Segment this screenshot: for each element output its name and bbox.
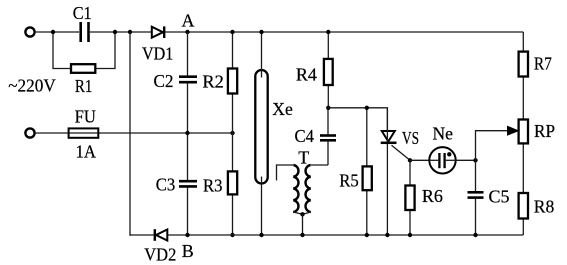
svg-text:R1: R1 xyxy=(75,76,93,96)
resistor R2 xyxy=(202,69,237,94)
wire top rail VD1 to right end xyxy=(165,31,523,33)
capacitor C3 xyxy=(156,175,197,195)
svg-text:R8: R8 xyxy=(534,197,555,217)
node dot T bottom rail xyxy=(300,233,304,237)
svg-text:VS: VS xyxy=(402,128,419,148)
wire junction row R4/R5/VS xyxy=(328,108,387,131)
wire Ne to C5 junction xyxy=(456,159,476,161)
node dot middle rail at R2-R3 column xyxy=(230,131,234,135)
node B xyxy=(182,233,194,261)
node dot T common xyxy=(300,212,304,216)
svg-text:C4: C4 xyxy=(295,126,315,146)
svg-text:T: T xyxy=(298,147,309,167)
svg-text:C2: C2 xyxy=(154,71,174,91)
node dot VS cathode bottom xyxy=(385,233,389,237)
wire VD2 branch (left vertical) xyxy=(129,32,131,236)
node dot C5 bottom xyxy=(473,233,477,237)
svg-text:R5: R5 xyxy=(339,171,359,191)
node dot R3 bottom xyxy=(230,233,234,237)
resistor R3 xyxy=(203,171,237,195)
resistor R4 xyxy=(296,32,333,108)
transformer T winding primary (right) xyxy=(298,147,328,214)
capacitor C1 xyxy=(73,3,92,42)
node dot Xe top xyxy=(259,30,263,34)
svg-text:R6: R6 xyxy=(422,186,443,206)
svg-text:R2: R2 xyxy=(202,71,224,91)
svg-text:RP: RP xyxy=(534,121,555,141)
svg-text:FU: FU xyxy=(75,107,96,127)
resistor R6 xyxy=(405,160,443,235)
capacitor C5 xyxy=(468,160,510,235)
wire A-B vertical (C2/C3 column) xyxy=(187,32,189,235)
arrowhead wiper xyxy=(508,126,519,135)
node dot R5 top xyxy=(365,106,369,110)
resistor R7 xyxy=(519,52,552,77)
wire middle rail xyxy=(35,132,233,134)
wire bottom rail xyxy=(129,234,523,236)
fuse FU 1A xyxy=(69,107,99,162)
trigger electrode lead (T secondary to Xe) xyxy=(277,165,294,181)
wire R2-R3 column xyxy=(232,32,234,235)
wire right column xyxy=(522,32,524,235)
wire Xe top lead / electrode xyxy=(261,32,263,78)
label ~220V xyxy=(8,75,56,95)
terminal X1 (top input) xyxy=(25,27,34,36)
node dot VD2 branch top xyxy=(128,30,132,34)
neon lamp Ne xyxy=(429,124,455,174)
node dot Xe bottom xyxy=(259,233,263,237)
capacitor C2 xyxy=(154,71,198,91)
terminal X2 (bottom input) xyxy=(25,128,34,137)
svg-text:VD2: VD2 xyxy=(144,245,176,265)
node dot middle rail at A-B column xyxy=(185,131,189,135)
wire wiper arm to RP xyxy=(476,131,509,161)
svg-text:VD1: VD1 xyxy=(142,43,173,63)
resistor R5 xyxy=(339,108,372,235)
resistor R8 xyxy=(519,193,555,219)
svg-text:C5: C5 xyxy=(489,187,510,207)
svg-text:~220V: ~220V xyxy=(8,75,56,95)
node dot R4 top xyxy=(326,30,330,34)
wire top rail left segment xyxy=(35,31,79,33)
wire top rail C1 to VD1 xyxy=(90,31,152,33)
wire T common to bottom rail xyxy=(302,214,304,235)
svg-text:R7: R7 xyxy=(534,54,552,74)
svg-text:C3: C3 xyxy=(156,175,176,195)
wire Xe bottom lead / electrode xyxy=(261,177,263,236)
svg-text:C1: C1 xyxy=(73,3,92,23)
svg-text:Ne: Ne xyxy=(432,124,453,144)
svg-text:Xe: Xe xyxy=(272,99,293,119)
node dot C5 junction xyxy=(473,158,477,162)
node dot R6 bottom xyxy=(408,233,412,237)
svg-text:1A: 1A xyxy=(75,142,96,162)
resistor R1 xyxy=(71,64,95,96)
potentiometer RP xyxy=(519,120,555,144)
transformer T winding secondary (left) xyxy=(293,165,303,214)
svg-text:R4: R4 xyxy=(296,64,317,84)
wire gate junction to Ne xyxy=(410,159,430,161)
node dot R4 bottom junction xyxy=(326,106,330,110)
node dot R5 bottom xyxy=(365,233,369,237)
node dot R2 top xyxy=(230,30,234,34)
wire R1 branch xyxy=(53,32,115,69)
svg-text:A: A xyxy=(182,10,195,30)
node A xyxy=(182,10,195,34)
diode VD1 xyxy=(142,26,173,63)
node dot gate junction xyxy=(408,158,412,162)
thyristor VS xyxy=(381,108,419,235)
node dot R1 right xyxy=(113,30,117,34)
capacitor C4 xyxy=(295,108,336,165)
lamp Xe tube xyxy=(255,70,292,184)
svg-text:R3: R3 xyxy=(203,176,223,196)
svg-text:B: B xyxy=(182,241,194,261)
diode VD2 xyxy=(144,229,176,265)
node dot terminal junction xyxy=(51,30,55,34)
